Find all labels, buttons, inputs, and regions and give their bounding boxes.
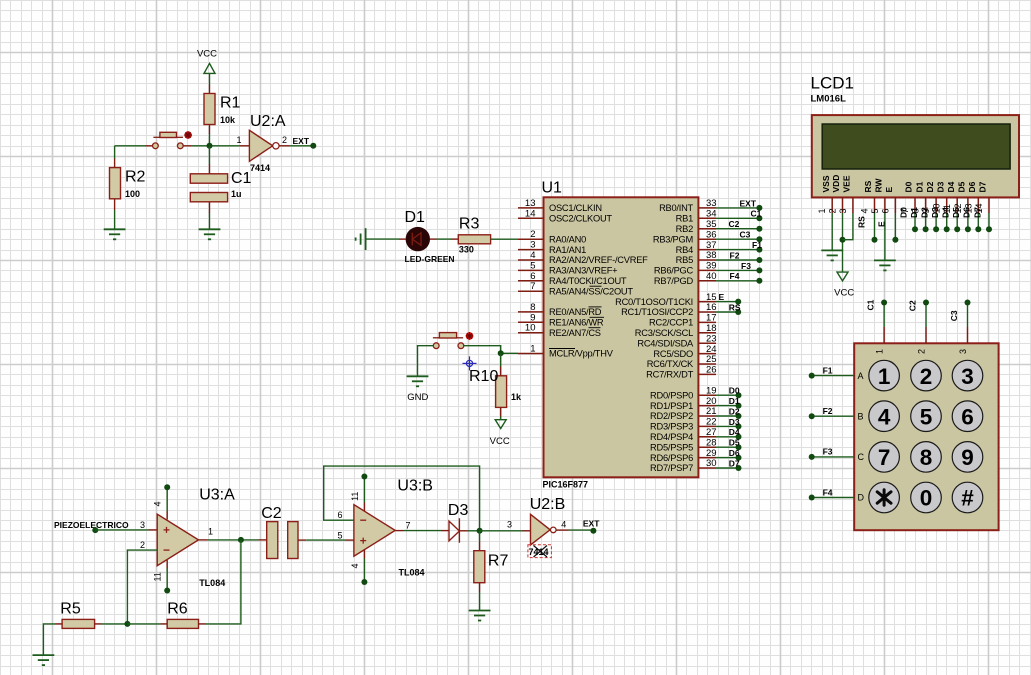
svg-text:PIC16F877: PIC16F877 — [543, 480, 589, 490]
wire R5 to node — [95, 623, 102, 625]
svg-text:F2: F2 — [730, 250, 740, 260]
button red indicator (MCLR) — [466, 332, 474, 340]
svg-text:40: 40 — [706, 271, 717, 282]
wire LCD VSS to ground — [831, 213, 833, 250]
svg-text:TL084: TL084 — [399, 568, 425, 578]
resistor R3 — [458, 235, 490, 244]
keypad key 7 — [869, 442, 900, 473]
svg-text:F1: F1 — [752, 240, 762, 250]
pin 30 (RD7/PSP7) U1 right — [698, 467, 716, 469]
wire LCD E down — [894, 213, 896, 240]
svg-text:R6: R6 — [167, 600, 188, 617]
value 7414 with marker box (U2:B) — [528, 545, 552, 558]
node D3 (LCD) — [944, 226, 950, 232]
pin 25 (RC6/TX/CK) U1 right — [698, 363, 716, 365]
svg-text:R7: R7 — [488, 552, 509, 569]
pin 36 (RB3/PGM) U1 right — [698, 238, 716, 240]
svg-text:1: 1 — [875, 349, 885, 354]
pin 15 (RC0/T1OSO/T1CKI) U1 right — [698, 301, 716, 303]
svg-text:F2: F2 — [823, 406, 833, 416]
svg-text:D3: D3 — [729, 417, 740, 427]
wire pin 38 to net F2 — [716, 259, 759, 261]
svg-text:7: 7 — [530, 281, 535, 292]
node EXT (top) — [310, 143, 316, 149]
svg-text:14: 14 — [525, 208, 536, 219]
svg-text:RB2: RB2 — [676, 224, 693, 234]
wire pin 37 to net F1 — [716, 249, 759, 251]
svg-text:D5: D5 — [951, 207, 961, 218]
node E — [735, 299, 741, 305]
node D6 — [736, 455, 742, 461]
pin 21 (RD2/PSP2) U1 right — [698, 415, 716, 417]
LCD pin 2 stub — [842, 197, 844, 213]
wire R3 to U1 pin 2 — [491, 238, 518, 240]
svg-text:13: 13 — [525, 198, 536, 209]
keypad key 2 — [911, 360, 942, 391]
svg-text:D1: D1 — [914, 181, 924, 192]
U3:A power pin 11 stub — [166, 560, 168, 568]
wire LCD D1 down — [925, 213, 927, 229]
capacitor C1 — [190, 174, 227, 202]
svg-text:C2: C2 — [261, 505, 282, 522]
svg-text:29: 29 — [706, 448, 717, 459]
resistor R2 — [110, 168, 121, 199]
node D6 (LCD) — [975, 226, 981, 232]
svg-text:36: 36 — [706, 229, 717, 240]
LCD pin 1 stub — [831, 197, 833, 213]
svg-text:22: 22 — [706, 417, 717, 428]
wire pin 27 to net D4 — [716, 436, 739, 438]
svg-text:17: 17 — [706, 313, 717, 324]
pin 18 (RC3/SCK/SCL) U1 right — [698, 332, 716, 334]
node F3 — [809, 454, 815, 460]
wire button to GND — [418, 346, 434, 377]
wire C1 to ground — [209, 202, 211, 213]
svg-text:6: 6 — [337, 510, 342, 520]
svg-text:19: 19 — [706, 385, 717, 396]
resistor R6 — [167, 619, 198, 628]
wire D3 to node — [459, 530, 467, 532]
svg-text:9: 9 — [961, 445, 974, 470]
LCD pin 10 stub — [946, 197, 948, 213]
svg-text:D0: D0 — [904, 181, 914, 192]
wire button to MCLR node — [464, 346, 501, 354]
pin 26 (RC7/RX/DT) U1 right — [698, 373, 716, 375]
node C1 — [881, 300, 887, 306]
svg-text:7414: 7414 — [529, 547, 549, 557]
wire MCLR node to U1 pin 1 — [501, 352, 518, 354]
pin 1 (MCLR/Vpp/THV) stub U1 left — [518, 353, 544, 355]
svg-text:23: 23 — [706, 333, 717, 344]
wire LCD RS down — [874, 213, 876, 240]
origin marker (blue) — [463, 356, 477, 370]
node D2 — [736, 413, 742, 419]
wire pin 21 to net D2 — [716, 415, 739, 417]
svg-text:RB4: RB4 — [676, 245, 693, 255]
LCD pin 6 stub — [894, 197, 896, 213]
ground (below R5) — [33, 655, 55, 665]
svg-text:1k: 1k — [511, 392, 522, 402]
wire LCD D2 down — [935, 213, 937, 229]
node D4 (LCD) — [954, 226, 960, 232]
node D4 — [736, 434, 742, 440]
svg-text:RD6/PSP6: RD6/PSP6 — [650, 453, 693, 463]
wire node to C1 — [209, 146, 211, 164]
svg-text:U2:B: U2:B — [530, 496, 566, 513]
svg-text:VSS: VSS — [821, 175, 831, 192]
diode D3 — [449, 518, 459, 542]
svg-text:38: 38 — [706, 250, 717, 261]
svg-text:RA4/T0CKI/C1OUT: RA4/T0CKI/C1OUT — [549, 276, 627, 286]
wire U3:B output to D3 — [395, 530, 403, 532]
node EXT (bottom) — [590, 528, 596, 534]
wire ground to D1 — [366, 238, 399, 240]
node F3 — [756, 267, 762, 273]
svg-text:2: 2 — [920, 364, 933, 389]
node C1 — [756, 215, 762, 221]
svg-text:10: 10 — [525, 323, 536, 334]
svg-text:11: 11 — [153, 572, 163, 581]
svg-text:D5: D5 — [729, 438, 740, 448]
wire R1 to node — [209, 125, 211, 135]
button terminal left — [153, 143, 159, 149]
pin 38 (RB5) U1 right — [698, 259, 716, 261]
pin 23 (RC4/SDI/SDA) U1 right — [698, 342, 716, 344]
pin 10 (RE2/AN7/CS) stub U1 left — [518, 332, 544, 334]
button terminal left (MCLR) — [433, 343, 439, 349]
pin 8 (RE0/AN5/RD) stub U1 left — [518, 311, 544, 313]
svg-text:D0: D0 — [898, 207, 908, 218]
svg-text:D4: D4 — [941, 207, 951, 218]
inverter U2:A 7414 — [249, 130, 279, 161]
wire pin 15 to net E — [716, 301, 738, 303]
svg-text:6: 6 — [880, 208, 890, 213]
svg-text:D5: D5 — [957, 181, 967, 192]
wire U2:A output to EXT — [279, 145, 289, 147]
svg-text:100: 100 — [125, 189, 140, 199]
svg-text:RS: RS — [729, 302, 741, 312]
op-amp U3:A TL084 — [157, 514, 198, 566]
svg-text:1: 1 — [878, 364, 891, 389]
push button (top left) — [153, 132, 183, 137]
wire pin 28 to net D5 — [716, 446, 739, 448]
svg-text:20: 20 — [706, 396, 717, 407]
pin 2 (RA0/AN0) stub U1 left — [518, 238, 544, 240]
node C2 — [923, 300, 929, 306]
node F1 — [756, 247, 762, 253]
svg-text:C3: C3 — [949, 310, 959, 321]
svg-text:D2: D2 — [919, 207, 929, 218]
button terminal right (MCLR) — [458, 343, 464, 349]
svg-text:18: 18 — [706, 323, 717, 334]
wire button to U2:A input — [183, 145, 191, 147]
wire LCD VEE to VDD net — [843, 213, 853, 240]
node F4 — [756, 278, 762, 284]
LCD pin 11 stub — [956, 197, 958, 213]
wire to R2 — [114, 146, 116, 159]
svg-text:RB7/PGD: RB7/PGD — [654, 276, 694, 286]
node EXT — [756, 205, 762, 211]
pin 33 (RB0/INT) U1 right — [698, 207, 716, 209]
wire LCD RW to ground — [884, 213, 886, 260]
keypad body — [854, 343, 998, 530]
resistor R7 — [474, 551, 485, 583]
svg-text:C1: C1 — [231, 170, 252, 187]
pin 14 (OSC2/CLKOUT) stub U1 left — [518, 217, 544, 219]
node R5/R6/pin2 — [124, 621, 130, 627]
svg-text:0: 0 — [920, 486, 933, 511]
svg-text:1: 1 — [530, 344, 535, 355]
node U3:A output — [238, 537, 244, 543]
node C2 — [756, 226, 762, 232]
svg-text:RD4/PSP4: RD4/PSP4 — [650, 432, 693, 442]
pin 37 (RB4) U1 right — [698, 249, 716, 251]
keypad key 1 — [869, 360, 900, 391]
pin 39 (RB6/PGC) U1 right — [698, 269, 716, 271]
svg-text:E: E — [877, 221, 887, 227]
wire keypad row F3 — [812, 456, 855, 458]
inverter U2:B 7414 — [531, 514, 557, 545]
pin 28 (RD5/PSP5) U1 right — [698, 446, 716, 448]
wire LCD D7 down — [988, 213, 990, 229]
wire node to R10 — [500, 353, 502, 366]
node F2 — [756, 257, 762, 263]
wire pin 39 to net F3 — [716, 269, 759, 271]
svg-text:VEE: VEE — [842, 175, 852, 192]
svg-text:R1: R1 — [220, 95, 241, 112]
node RS (LCD) — [872, 237, 878, 243]
svg-text:35: 35 — [706, 219, 717, 230]
svg-text:RA0/AN0: RA0/AN0 — [549, 234, 586, 244]
pin 5 (RA3/AN3/VREF+) stub U1 left — [518, 269, 544, 271]
wire LCD D6 down — [977, 213, 979, 229]
svg-text:11: 11 — [350, 492, 360, 501]
svg-text:RC7/RX/DT: RC7/RX/DT — [646, 370, 693, 380]
svg-text:D4: D4 — [946, 181, 956, 192]
button terminal right — [177, 143, 183, 149]
LCD pin 9 stub — [935, 197, 937, 213]
svg-text:4: 4 — [561, 519, 566, 529]
wire LCD D0 down — [914, 213, 916, 229]
svg-text:RC1/T1OSI/CCP2: RC1/T1OSI/CCP2 — [621, 307, 693, 317]
svg-text:D3: D3 — [935, 181, 945, 192]
svg-text:RS: RS — [863, 180, 873, 192]
svg-text:RA2/AN2/VREF-/CVREF: RA2/AN2/VREF-/CVREF — [549, 255, 648, 265]
svg-text:5: 5 — [530, 260, 535, 271]
wire U2:B output to EXT — [556, 529, 568, 531]
wire node to R7 — [479, 531, 481, 542]
wire R6 to feedback riser — [199, 623, 206, 625]
ground GND (under button) — [407, 376, 429, 386]
svg-text:RC3/SCK/SCL: RC3/SCK/SCL — [635, 328, 693, 338]
svg-text:EXT: EXT — [740, 198, 757, 208]
svg-text:3: 3 — [507, 519, 512, 529]
LCD pin 14 stub — [988, 197, 990, 213]
push button (MCLR reset) — [433, 333, 463, 338]
LCD LCD1 LM016L body — [812, 115, 1019, 197]
svg-text:R5: R5 — [60, 600, 81, 617]
svg-text:RC6/TX/CK: RC6/TX/CK — [647, 359, 694, 369]
LCD pin 12 stub — [967, 197, 969, 213]
svg-text:7414: 7414 — [250, 163, 270, 173]
pin 13 (OSC1/CLKIN) stub U1 left — [518, 207, 544, 209]
pin 40 (RB7/PGD) U1 right — [698, 280, 716, 282]
svg-text:U3:A: U3:A — [199, 487, 235, 504]
wire R2 to ground — [114, 199, 116, 210]
node F2 — [809, 413, 815, 419]
svg-text:RA5/AN4/SS/C2OUT: RA5/AN4/SS/C2OUT — [549, 286, 633, 296]
node D1 (LCD) — [923, 226, 929, 232]
node D0 (LCD) — [912, 226, 918, 232]
svg-text:D6: D6 — [967, 181, 977, 192]
svg-text:8: 8 — [920, 445, 933, 470]
svg-text:R3: R3 — [459, 216, 480, 233]
svg-text:3: 3 — [530, 240, 535, 251]
keypad key 5 — [911, 401, 942, 432]
svg-text:U3:B: U3:B — [397, 478, 433, 495]
svg-text:D: D — [858, 493, 865, 503]
wire R10 to VCC — [500, 407, 502, 416]
node U3:A pin11 — [164, 588, 170, 594]
svg-text:RW: RW — [874, 178, 884, 193]
LCD pin 4 stub — [874, 197, 876, 213]
ground (under R2) — [104, 229, 126, 239]
svg-text:C: C — [858, 452, 865, 462]
svg-text:EXT: EXT — [583, 519, 600, 529]
svg-text:1: 1 — [236, 135, 241, 145]
svg-text:2: 2 — [282, 135, 287, 145]
wire pin 22 to net D3 — [716, 425, 739, 427]
node U3:B pin4 — [361, 579, 367, 585]
svg-text:D6: D6 — [729, 448, 740, 458]
svg-text:4: 4 — [153, 501, 163, 506]
ground (under C1) — [199, 229, 221, 239]
node D1 — [736, 403, 742, 409]
node piezo input — [92, 527, 98, 533]
svg-text:16: 16 — [706, 302, 717, 313]
svg-text:E: E — [884, 187, 894, 193]
svg-text:28: 28 — [706, 437, 717, 448]
svg-text:RS: RS — [857, 216, 867, 228]
svg-text:RD1/PSP1: RD1/PSP1 — [650, 401, 693, 411]
wire U3:A output — [199, 539, 208, 541]
svg-text:LCD1: LCD1 — [811, 74, 854, 93]
wire pin 19 to net D0 — [716, 394, 739, 396]
U3:B power pin 11 stub — [363, 503, 365, 511]
svg-text:B: B — [858, 411, 864, 421]
wire node to U2:B — [480, 530, 523, 532]
svg-text:RD2/PSP2: RD2/PSP2 — [650, 411, 693, 421]
svg-text:1: 1 — [817, 208, 827, 213]
svg-text:5: 5 — [920, 404, 933, 429]
wire keypad column C1 — [883, 303, 885, 328]
svg-text:24: 24 — [706, 344, 717, 355]
keypad key 8 — [911, 442, 942, 473]
svg-text:25: 25 — [706, 354, 717, 365]
node D3 — [736, 423, 742, 429]
svg-text:RC0/T1OSO/T1CKI: RC0/T1OSO/T1CKI — [615, 297, 693, 307]
pin 4 (RA2/AN2/VREF-/CVREF) stub U1 left — [518, 259, 544, 261]
svg-text:26: 26 — [706, 365, 717, 376]
svg-text:RD3/PSP3: RD3/PSP3 — [650, 422, 693, 432]
keypad key 9 — [952, 442, 983, 473]
pin 29 (RD6/PSP6) U1 right — [698, 457, 716, 459]
svg-text:A: A — [858, 371, 864, 381]
pin 9 (RE1/AN6/WR) stub U1 left — [518, 321, 544, 323]
svg-text:PIEZOELECTRICO: PIEZOELECTRICO — [54, 520, 129, 530]
svg-text:RD5/PSP5: RD5/PSP5 — [650, 442, 693, 452]
microcontroller U1 PIC16F877 body — [544, 197, 699, 477]
pin 27 (RD4/PSP4) U1 right — [698, 436, 716, 438]
pin 17 (RC2/CCP1) U1 right — [698, 321, 716, 323]
svg-text:RC4/SDI/SDA: RC4/SDI/SDA — [637, 338, 694, 348]
node D5 — [736, 444, 742, 450]
pin 22 (RD3/PSP3) U1 right — [698, 425, 716, 427]
svg-text:U2:A: U2:A — [250, 113, 286, 130]
node junction R1/C1/button — [207, 143, 213, 149]
svg-text:6: 6 — [961, 404, 974, 429]
svg-text:C2: C2 — [908, 300, 918, 311]
wire pin 29 to net D6 — [716, 457, 739, 459]
svg-text:D7: D7 — [729, 458, 740, 468]
pin 20 (RD1/PSP1) U1 right — [698, 405, 716, 407]
svg-text:OSC2/CLKOUT: OSC2/CLKOUT — [549, 214, 612, 224]
keypad key 6 — [952, 401, 983, 432]
svg-text:4: 4 — [350, 563, 360, 568]
svg-text:R2: R2 — [125, 169, 146, 186]
svg-text:3: 3 — [140, 520, 145, 530]
svg-text:15: 15 — [706, 292, 717, 303]
keypad key * — [869, 482, 900, 513]
svg-text:D0: D0 — [729, 386, 740, 396]
svg-text:8: 8 — [530, 302, 535, 313]
resistor R1 — [204, 94, 215, 125]
wire R5 to ground — [56, 623, 63, 625]
svg-text:5: 5 — [870, 208, 880, 213]
svg-text:33: 33 — [706, 198, 717, 209]
LCD pin 5 stub — [884, 197, 886, 213]
svg-text:D1: D1 — [405, 209, 426, 226]
keypad key # — [952, 482, 983, 513]
wire U3:A pin2 loop to R5/R6 node — [127, 550, 157, 624]
U3:A power pin 4 stub — [166, 511, 168, 520]
node D3/R7/U2:B — [477, 528, 483, 534]
keypad key 3 — [952, 360, 983, 391]
svg-text:10k: 10k — [220, 115, 236, 125]
svg-text:21: 21 — [706, 406, 717, 417]
svg-text:7: 7 — [878, 445, 891, 470]
svg-text:1u: 1u — [231, 189, 242, 199]
ground (LCD VSS) — [821, 250, 843, 260]
wire pin 33 to net EXT — [716, 207, 759, 209]
node D2 (LCD) — [933, 226, 939, 232]
svg-text:OSC1/CLKIN: OSC1/CLKIN — [549, 203, 602, 213]
ground (left of D1, rotated) — [356, 228, 366, 250]
svg-text:VDD: VDD — [831, 175, 841, 193]
svg-text:VCC: VCC — [197, 49, 217, 60]
svg-text:LM016L: LM016L — [811, 94, 847, 105]
pin 34 (RB1) U1 right — [698, 217, 716, 219]
svg-text:D1: D1 — [729, 396, 740, 406]
svg-text:7: 7 — [405, 520, 410, 530]
svg-text:37: 37 — [706, 240, 717, 251]
svg-text:D7: D7 — [972, 207, 982, 218]
svg-text:#: # — [961, 486, 974, 511]
op-amp U3:B TL084 — [354, 505, 395, 557]
svg-text:TL084: TL084 — [199, 578, 225, 588]
LCD pin 8 stub — [925, 197, 927, 213]
wire keypad row F4 — [812, 497, 855, 499]
